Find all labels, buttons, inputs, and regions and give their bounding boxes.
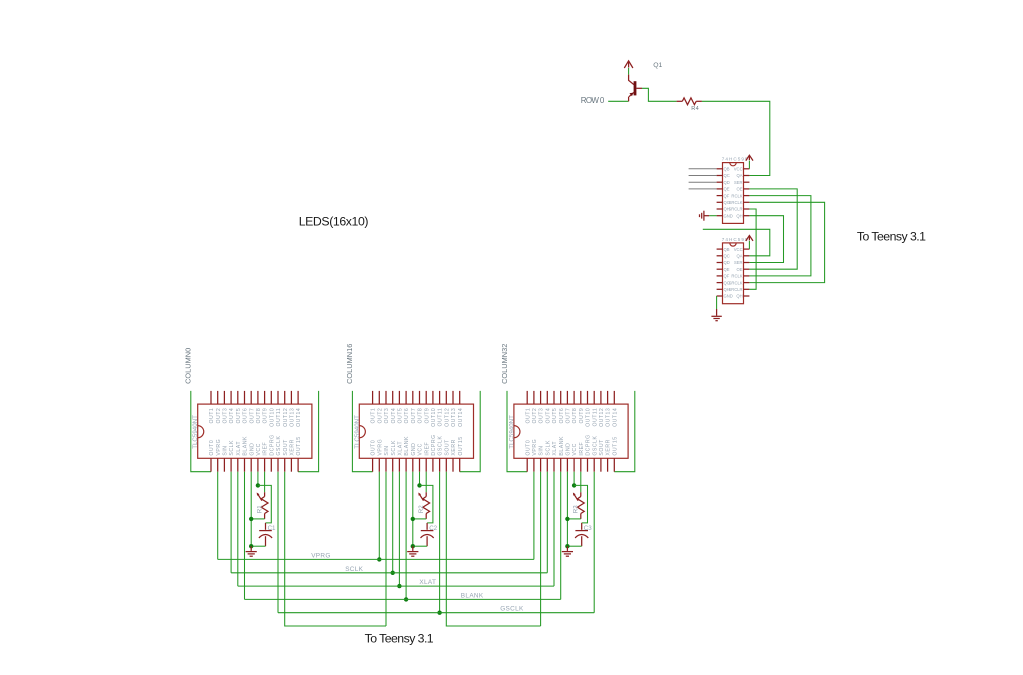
wire IC2 SCLK down to SCLK bus [392, 472, 394, 573]
IC1 bottom pin GSCLK [277, 458, 279, 471]
IC3 top pin OUT5 [553, 391, 555, 404]
svg-text:SRCLK: SRCLK [729, 280, 743, 285]
IC3 bottom pin GND [566, 458, 568, 471]
svg-text:Q1: Q1 [653, 62, 662, 69]
svg-text:RCLK: RCLK [731, 274, 742, 279]
IC1 bottom pin SOUT [284, 458, 286, 471]
IC3 top pin OUT10 [587, 391, 589, 404]
svg-text:QH: QH [736, 294, 742, 299]
ground symbol at U1 GND (rotated earth) [709, 215, 717, 217]
IC3 top pin OUT13 [607, 391, 609, 404]
IC2 top pin OUT7 [412, 391, 414, 404]
ground symbol below IC1 [250, 546, 252, 551]
svg-text:SCLK: SCLK [229, 440, 235, 456]
IC3 top pin OUT4 [546, 391, 548, 404]
IC2 top pin OUT4 [392, 391, 394, 404]
IC1 top pin OUT12 [284, 391, 286, 404]
svg-text:BLANK: BLANK [243, 436, 249, 456]
IC1 top pin OUT1 [210, 391, 212, 404]
IC1 top pin OUT5 [237, 391, 239, 404]
svg-text:SCLK: SCLK [345, 566, 363, 573]
svg-text:QH: QH [736, 213, 742, 218]
svg-text:DCPRG: DCPRG [586, 434, 592, 455]
svg-text:VPRG: VPRG [216, 439, 222, 456]
wire IC2 GND down [412, 472, 414, 547]
svg-text:OUT8: OUT8 [418, 408, 424, 424]
svg-text:XLAT: XLAT [398, 441, 404, 456]
IC3 bottom pin IREF [580, 458, 582, 471]
IC2 top pin OUT2 [378, 391, 380, 404]
wire IC3 VCC down [573, 472, 575, 486]
wire IC2 SIN down [385, 472, 387, 626]
wire IC1 BLANK down to BLANK bus [244, 472, 246, 600]
svg-text:R3: R3 [573, 505, 580, 513]
U1 pin QG (left 6) [717, 201, 723, 203]
IC1 bottom pin GND [250, 458, 252, 471]
IC1 bottom pin BLANK [244, 458, 246, 471]
svg-text:VCC: VCC [734, 167, 743, 172]
svg-text:OUT12: OUT12 [283, 408, 289, 427]
wire IC3 VPRG down to VPRG bus [533, 472, 535, 560]
resistor R1 (trimmer) [264, 492, 266, 496]
svg-text:OUT1: OUT1 [209, 408, 215, 424]
svg-text:OUT2: OUT2 [377, 408, 383, 424]
wire C2 bottom to GND [413, 545, 427, 547]
svg-text:SIN: SIN [384, 445, 390, 455]
wire VCC arrow to U2 VCC pin [748, 241, 750, 249]
svg-text:C1: C1 [268, 525, 276, 532]
U1 pin SRCLK (right 6) [744, 201, 750, 203]
svg-text:OUT9: OUT9 [263, 408, 269, 424]
svg-text:OUT12: OUT12 [444, 408, 450, 427]
svg-text:IREF: IREF [424, 442, 430, 456]
svg-text:BLANK: BLANK [461, 592, 484, 599]
gray stub wire U1 QC [689, 175, 717, 177]
IC3 bottom pin OUT0 [526, 458, 528, 471]
svg-text:C3: C3 [584, 525, 592, 532]
IC1 bottom pin DCPRG [270, 458, 272, 471]
svg-text:OUT4: OUT4 [229, 408, 235, 424]
svg-text:RCLK: RCLK [731, 193, 742, 198]
svg-text:OE: OE [737, 267, 743, 272]
IC2 top pin OUT10 [432, 391, 434, 404]
IC1 bottom pin OUT0 [210, 458, 212, 471]
svg-text:VPRG: VPRG [311, 552, 331, 559]
wire stub to U2 QA [703, 229, 770, 256]
svg-text:OUT0: OUT0 [371, 440, 377, 456]
IC2 top pin OUT3 [385, 391, 387, 404]
svg-text:SCLK: SCLK [545, 440, 551, 456]
svg-text:XERR: XERR [290, 439, 296, 455]
svg-text:QA: QA [737, 254, 743, 259]
svg-text:To Teensy 3.1: To Teensy 3.1 [365, 632, 434, 646]
U1 pin QF (left 5) [717, 195, 723, 197]
svg-text:DCPRG: DCPRG [269, 434, 275, 455]
svg-text:GND: GND [249, 443, 255, 456]
IC3 top pin OUT11 [593, 391, 595, 404]
IC3 bottom pin OUT15 [613, 458, 615, 471]
U2 pin VCC (right 1) [744, 248, 750, 250]
IC2 bottom pin GSCLK [439, 458, 441, 471]
svg-text:OUT14: OUT14 [296, 408, 302, 427]
resistor R4 [677, 100, 683, 102]
gray stub wire U1 QB [689, 168, 717, 170]
svg-text:VCC: VCC [572, 443, 578, 455]
svg-text:GSCLK: GSCLK [500, 606, 524, 613]
U1 pin SER (right 3) [744, 181, 750, 183]
U2 pin SRCLK (right 6) [744, 282, 750, 284]
U2 pin QA (right 2) [744, 255, 750, 257]
wire IC2 VPRG down to VPRG bus [378, 472, 380, 560]
U2 pin QB (left 1) [717, 248, 723, 250]
U1 pin QC (left 2) [717, 175, 723, 177]
svg-text:OUT1: OUT1 [371, 408, 377, 424]
wire IC3 SCLK down to SCLK bus [546, 472, 548, 573]
resistor R3 (trimmer) [580, 492, 582, 496]
IC1 top pin OUT9 [264, 391, 266, 404]
svg-text:XLAT: XLAT [236, 441, 242, 456]
wire VCC to Q1 collector [628, 68, 630, 75]
svg-text:SOUT: SOUT [599, 439, 605, 456]
U1 pin QH (left 7) [717, 208, 723, 210]
svg-text:GND: GND [724, 213, 733, 218]
svg-text:OUT6: OUT6 [559, 408, 565, 424]
svg-text:OUT7: OUT7 [411, 408, 417, 424]
bus wire XLAT [238, 585, 554, 587]
wire IC3 XLAT down to XLAT bus [553, 472, 555, 586]
svg-text:SOUT: SOUT [283, 439, 289, 456]
ground symbol below IC2 [412, 546, 414, 551]
svg-text:C2: C2 [429, 525, 437, 532]
svg-text:SIN: SIN [223, 445, 229, 455]
svg-text:COLUMN32: COLUMN32 [500, 344, 509, 384]
svg-text:XLAT: XLAT [419, 579, 436, 586]
wire IC1 OUT15 right side [298, 391, 319, 472]
IC1 bottom pin SCLK [230, 458, 232, 471]
wire IC1 VPRG down to VPRG bus [217, 472, 219, 560]
IC2 bottom pin SIN [385, 458, 387, 471]
IC3 bottom pin SCLK [546, 458, 548, 471]
svg-text:OUT4: OUT4 [545, 408, 551, 424]
wire IC1 SOUT to IC2 SIN [285, 472, 386, 626]
IC2 top pin OUT6 [405, 391, 407, 404]
IC1 top pin OUT10 [270, 391, 272, 404]
junction VPRG bus at IC2 [377, 557, 381, 561]
U1 pin RCLK (right 5) [744, 195, 750, 197]
IC3 bottom pin BLANK [560, 458, 562, 471]
capacitor C1 [265, 523, 267, 530]
svg-text:ROW 0: ROW 0 [581, 96, 605, 105]
wire U1 QH to U2 SER [749, 216, 783, 263]
U1 pin SRCLR (right 7) [744, 208, 750, 210]
svg-text:OUT13: OUT13 [451, 408, 457, 427]
junction GND/R3 [565, 517, 569, 521]
wire VCC to C2 top [420, 485, 433, 523]
IC1 top pin OUT3 [223, 391, 225, 404]
U2 pin SRCLR (right 7) [744, 288, 750, 290]
IC3 bottom pin VCC [573, 458, 575, 471]
IC1 bottom pin SIN [223, 458, 225, 471]
bus wire BLANK [245, 598, 561, 600]
svg-text:OUT3: OUT3 [223, 408, 229, 424]
svg-text:R4: R4 [691, 106, 699, 112]
svg-text:QB: QB [724, 247, 730, 252]
svg-text:VCC: VCC [256, 443, 262, 455]
wire IC1 XLAT down to XLAT bus [237, 472, 239, 586]
svg-text:OUT10: OUT10 [586, 408, 592, 427]
svg-text:VPRG: VPRG [532, 439, 538, 456]
svg-text:QC: QC [724, 254, 730, 259]
svg-text:SRCLR: SRCLR [728, 287, 742, 292]
svg-text:OUT8: OUT8 [572, 408, 578, 424]
junction GND/C2 [411, 544, 415, 548]
svg-text:VCC: VCC [734, 247, 743, 252]
U2 pin QH (right 8) [744, 295, 750, 297]
power VCC arrow above Q1 [624, 61, 633, 68]
svg-text:OUT15: OUT15 [612, 436, 618, 455]
svg-text:OUT5: OUT5 [236, 408, 242, 424]
svg-text:OUT11: OUT11 [276, 408, 282, 427]
U1 pin QD (left 3) [717, 181, 723, 183]
svg-text:SER: SER [734, 260, 743, 265]
svg-text:SCLK: SCLK [391, 440, 397, 456]
IC2 top pin OUT1 [372, 391, 374, 404]
svg-text:OUT5: OUT5 [552, 408, 558, 424]
svg-text:SER: SER [734, 180, 743, 185]
ground symbol below IC3 [566, 546, 568, 551]
U2 pin QH (left 7) [717, 288, 723, 290]
U1 pin GND (left 8) [717, 215, 723, 217]
wire IC3 GSCLK down to GSCLK bus [593, 472, 595, 613]
U1 pin QH (right 8) [744, 215, 750, 217]
svg-text:OUT6: OUT6 [404, 408, 410, 424]
junction VCC node IC1 [256, 483, 260, 487]
wire R2 bottom to GND line [413, 518, 426, 520]
wire IC2 OUT0 left side [352, 391, 372, 472]
junction GSCLK bus at IC2 [437, 611, 441, 615]
U2 pin QG (left 6) [717, 282, 723, 284]
svg-text:R2: R2 [418, 505, 425, 513]
svg-text:VCC: VCC [418, 443, 424, 455]
IC1 bottom pin IREF [264, 458, 266, 471]
svg-text:R1: R1 [256, 505, 263, 513]
IC2 bottom pin BLANK [405, 458, 407, 471]
svg-text:OUT9: OUT9 [579, 408, 585, 424]
svg-text:OUT12: OUT12 [599, 408, 605, 427]
IC2 top pin OUT12 [445, 391, 447, 404]
svg-text:OUT14: OUT14 [612, 408, 618, 427]
IC2 top pin OUT9 [425, 391, 427, 404]
wire C1 bottom to GND [251, 545, 265, 547]
wire U1 SRCLK to U2 SRCLK [749, 202, 824, 282]
svg-text:OUT15: OUT15 [296, 436, 302, 455]
power VCC arrow at U1 VCC [746, 155, 753, 160]
svg-text:OUT10: OUT10 [269, 408, 275, 427]
IC2 bottom pin OUT0 [372, 458, 374, 471]
IC3 bottom pin VPRG [533, 458, 535, 471]
U2 pin QF (left 5) [717, 275, 723, 277]
svg-text:GND: GND [566, 443, 572, 456]
IC3 top pin OUT3 [540, 391, 542, 404]
svg-text:IREF: IREF [579, 442, 585, 456]
IC IC2 TLC5940NT [359, 404, 473, 458]
IC3 bottom pin SIN [540, 458, 542, 471]
IC1 top pin OUT13 [290, 391, 292, 404]
IC1 top pin OUT8 [257, 391, 259, 404]
svg-text:TLC5940NT: TLC5940NT [192, 415, 199, 449]
wire IC1 VCC down [257, 472, 259, 486]
U2 pin QD (left 3) [717, 262, 723, 264]
junction SCLK bus at IC2 [391, 571, 395, 575]
U2 pin OE (right 4) [744, 268, 750, 270]
ground symbol at U2 GND (earth) [716, 296, 718, 309]
svg-text:OUT13: OUT13 [606, 408, 612, 427]
wire U1 SRCLR to U2 SRCLR [749, 209, 756, 289]
wire VCC arrow to U1 VCC pin [748, 161, 750, 169]
svg-text:OE: OE [737, 187, 743, 192]
svg-text:COLUMN16: COLUMN16 [345, 344, 354, 384]
svg-text:OUT14: OUT14 [458, 408, 464, 427]
svg-text:QF: QF [724, 193, 730, 198]
svg-text:SRCLK: SRCLK [729, 200, 743, 205]
svg-text:OUT0: OUT0 [525, 440, 531, 456]
svg-text:GND: GND [411, 443, 417, 456]
IC3 top pin OUT6 [560, 391, 562, 404]
IC2 bottom pin VPRG [378, 458, 380, 471]
IC3 bottom pin XERR [607, 458, 609, 471]
svg-text:QF: QF [724, 274, 730, 279]
wire IC2 OUT15 right side [460, 391, 481, 472]
IC2 bottom pin VCC [419, 458, 421, 471]
svg-text:BLANK: BLANK [559, 436, 565, 456]
wire IC2 IREF down to R2 [425, 472, 427, 493]
svg-text:OUT0: OUT0 [209, 440, 215, 456]
IC2 bottom pin SCLK [392, 458, 394, 471]
svg-text:XERR: XERR [606, 439, 612, 455]
U2 pin SER (right 3) [744, 262, 750, 264]
junction GND/R2 [411, 517, 415, 521]
U2 pin RCLK (right 5) [744, 275, 750, 277]
wire IC1 OUT0 left side [191, 391, 211, 472]
capacitor C2 [426, 523, 428, 530]
IC IC1 TLC5940NT [198, 404, 312, 458]
svg-text:VPRG: VPRG [377, 439, 383, 456]
power VCC arrow at U2 VCC [746, 236, 753, 241]
svg-text:SIN: SIN [539, 445, 545, 455]
IC2 bottom pin SOUT [445, 458, 447, 471]
IC U1 74HC595 [723, 163, 744, 224]
junction VCC node IC2 [417, 483, 421, 487]
IC2 bottom pin GND [412, 458, 414, 471]
wire IC3 OUT15 right side [614, 391, 635, 472]
gray stub wire U1 QE [689, 188, 717, 190]
svg-text:QD: QD [724, 260, 730, 265]
IC2 top pin OUT14 [459, 391, 461, 404]
svg-text:OUT11: OUT11 [592, 408, 598, 427]
IC3 bottom pin DCPRG [587, 458, 589, 471]
svg-text:OUT10: OUT10 [431, 408, 437, 427]
wire C3 bottom to GND [567, 545, 581, 547]
svg-text:BLANK: BLANK [404, 436, 410, 456]
junction GND/R1 [249, 517, 253, 521]
wire R1 bottom to GND line [251, 518, 264, 520]
IC1 bottom pin XLAT [237, 458, 239, 471]
IC2 bottom pin XERR [452, 458, 454, 471]
IC3 top pin OUT12 [600, 391, 602, 404]
svg-text:OUT4: OUT4 [391, 408, 397, 424]
svg-text:DCPRG: DCPRG [431, 434, 437, 455]
svg-text:QD: QD [724, 180, 730, 185]
svg-text:GND: GND [724, 294, 733, 299]
svg-text:74HC595: 74HC595 [722, 237, 749, 242]
svg-text:GSCLK: GSCLK [592, 435, 598, 455]
svg-text:OUT6: OUT6 [243, 408, 249, 424]
junction VCC node IC3 [572, 483, 576, 487]
wire U1 RCLK to U2 RCLK [749, 196, 811, 276]
svg-text:OUT9: OUT9 [424, 408, 430, 424]
wire R3 bottom to GND line [567, 518, 580, 520]
svg-text:OUT1: OUT1 [525, 408, 531, 424]
wire IC3 BLANK down to BLANK bus [560, 472, 562, 600]
svg-text:LEDS(16x10): LEDS(16x10) [299, 215, 369, 229]
IC2 top pin OUT11 [439, 391, 441, 404]
svg-text:OUT11: OUT11 [438, 408, 444, 427]
wire Q1 base to R4 [642, 88, 677, 101]
U1 pin OE (right 4) [744, 188, 750, 190]
IC2 bottom pin XLAT [398, 458, 400, 471]
IC U2 74HC595 [723, 243, 744, 304]
svg-text:OUT5: OUT5 [398, 408, 404, 424]
svg-text:OUT13: OUT13 [290, 408, 296, 427]
wire IC1 GSCLK down to GSCLK bus [277, 472, 279, 613]
U1 pin QE (left 4) [717, 188, 723, 190]
wire U1 OE to U2 OE [749, 189, 797, 269]
wire ROW 0 to Q1 emitter [608, 100, 628, 102]
junction GND/C1 [249, 544, 253, 548]
transistor Q1 [629, 75, 634, 85]
IC3 top pin OUT14 [613, 391, 615, 404]
U2 pin QE (left 4) [717, 268, 723, 270]
svg-text:OUT2: OUT2 [216, 408, 222, 424]
U1 pin QA (right 2) [744, 175, 750, 177]
wire IC1 IREF down to R1 [264, 472, 266, 493]
svg-text:QE: QE [724, 187, 730, 192]
svg-text:OUT15: OUT15 [458, 436, 464, 455]
svg-text:COLUMN0: COLUMN0 [184, 348, 193, 384]
resistor R2 (trimmer) [425, 492, 427, 496]
IC1 top pin OUT7 [250, 391, 252, 404]
wire IC3 GND down [566, 472, 568, 547]
IC1 bottom pin OUT15 [297, 458, 299, 471]
svg-text:QE: QE [724, 267, 730, 272]
IC1 top pin OUT4 [230, 391, 232, 404]
svg-text:SOUT: SOUT [444, 439, 450, 456]
IC3 top pin OUT9 [580, 391, 582, 404]
IC1 top pin OUT11 [277, 391, 279, 404]
svg-text:IREF: IREF [263, 442, 269, 456]
wire IC2 GSCLK down to GSCLK bus [439, 472, 441, 613]
svg-text:OUT8: OUT8 [256, 408, 262, 424]
svg-text:GSCLK: GSCLK [276, 435, 282, 455]
junction BLANK bus at IC2 [404, 597, 408, 601]
IC2 top pin OUT8 [419, 391, 421, 404]
IC1 top pin OUT6 [244, 391, 246, 404]
U1 pin VCC (right 1) [744, 168, 750, 170]
capacitor C3 [581, 523, 583, 530]
svg-text:XLAT: XLAT [552, 441, 558, 456]
IC1 bottom pin XERR [290, 458, 292, 471]
svg-text:QA: QA [737, 173, 743, 178]
